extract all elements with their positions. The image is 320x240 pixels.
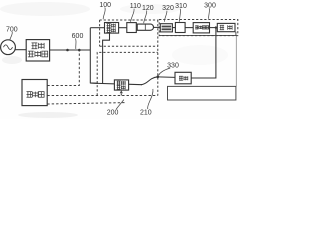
drive circuit box: [114, 80, 128, 90]
load bottom corner wire: [159, 32, 236, 36]
dashed box 200: [97, 52, 158, 95]
optocoupler box: [175, 72, 191, 84]
wire box1 to box2: [119, 27, 127, 29]
junction dot feedback top: [215, 26, 217, 28]
wire AC to filter: [15, 49, 26, 51]
main rail wire: [50, 49, 91, 51]
load box: [217, 23, 235, 31]
wire transformer to 320: [154, 26, 163, 28]
drive line wire: [90, 83, 142, 85]
top wire into box 100: [90, 27, 104, 29]
svg-text:310: 310: [175, 3, 187, 10]
svg-text:700: 700: [6, 26, 18, 33]
control unit box: [22, 80, 47, 106]
AC source 700 circle: [1, 40, 16, 55]
svg-text:300: 300: [204, 3, 216, 10]
control dashed line 2: [47, 95, 158, 97]
box 320: [160, 24, 172, 32]
control dashed line 3: [47, 103, 126, 104]
svg-text:110: 110: [130, 3, 141, 10]
box 310: [175, 23, 185, 33]
wire 310 to detector: [185, 27, 193, 29]
feedback vertical wire: [191, 28, 216, 78]
shared dashed right edge: [157, 20, 159, 96]
junction dot 600 tap: [78, 49, 81, 52]
wire detector to load: [210, 27, 217, 29]
junction node 330: [157, 76, 160, 79]
junction dot input sense: [66, 49, 69, 52]
dashed box 300: [159, 20, 238, 36]
switch box 110: [127, 23, 137, 33]
feedback wire opto to node: [158, 76, 175, 79]
svg-text:120: 120: [142, 5, 154, 12]
rectifier box: [105, 23, 119, 34]
empty output box: [168, 86, 236, 100]
transformer 120: [137, 24, 153, 30]
input filter box: [26, 40, 49, 61]
dashed arrow into drive box: [120, 93, 122, 96]
riser wire to switch stage: [90, 28, 98, 84]
svg-text:200: 200: [107, 109, 119, 116]
leader 700: [10, 32, 13, 40]
wire from switch box down: [103, 33, 110, 83]
detector box: [193, 23, 209, 33]
wire 320 to 310: [172, 27, 175, 29]
wire load down to box: [235, 36, 237, 87]
svg-text:600: 600: [72, 33, 84, 40]
curvy wire drive to node 330: [141, 77, 158, 85]
dashed box 100: [100, 20, 158, 46]
control dashed line 1: [47, 51, 79, 86]
svg-text:320: 320: [162, 5, 174, 12]
svg-text:210: 210: [140, 109, 152, 116]
